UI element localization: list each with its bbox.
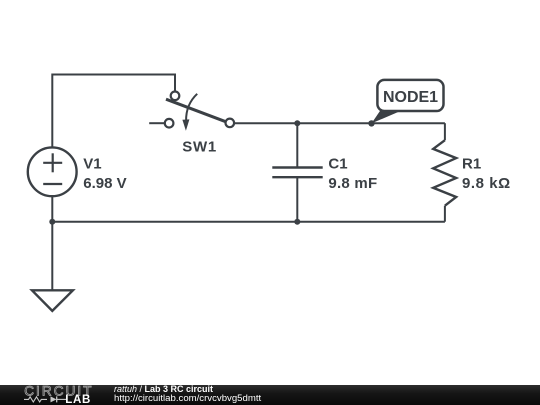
- wire: V1 top to SW1 top throw: [52, 75, 175, 148]
- svg-text:R1: R1: [462, 156, 481, 173]
- switch SW1: [149, 92, 234, 131]
- junction dot: C1 top: [294, 120, 300, 126]
- svg-text:9.8 mF: 9.8 mF: [328, 175, 377, 192]
- label R1 value: [462, 156, 511, 193]
- junction dot: C1 bottom: [294, 219, 300, 225]
- svg-text:NODE1: NODE1: [383, 89, 438, 106]
- wire: bottom rail: [52, 221, 445, 223]
- wire: V1 bottom lead: [51, 196, 53, 222]
- wire: C1 top lead: [296, 123, 298, 167]
- footer bar: [0, 385, 540, 405]
- svg-text:SW1: SW1: [182, 138, 217, 155]
- node NODE1 flag: [368, 80, 443, 127]
- label C1 value: [328, 156, 377, 193]
- credit text: [114, 385, 261, 404]
- svg-text:6.98 V: 6.98 V: [83, 175, 126, 192]
- capacitor C1: [272, 168, 322, 178]
- svg-text:C1: C1: [328, 156, 347, 173]
- svg-text:9.8 kΩ: 9.8 kΩ: [462, 175, 511, 192]
- junction dot: V1 bottom node: [49, 219, 55, 225]
- label V1 value: [83, 156, 126, 193]
- resistor R1: [433, 123, 456, 222]
- wire: SW1 common to R1 top (through node): [234, 122, 445, 124]
- svg-text:V1: V1: [83, 156, 101, 173]
- wire: C1 bottom lead: [296, 177, 298, 222]
- ground: [32, 290, 73, 311]
- svg-text:LAB: LAB: [65, 394, 91, 405]
- voltage source V1: [28, 147, 77, 196]
- wire: ground lead: [51, 222, 53, 291]
- CircuitLab logo: [0, 384, 100, 405]
